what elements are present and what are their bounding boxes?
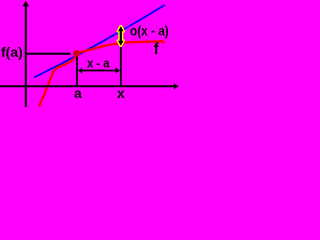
black vertical double arrow o(x-a) <box>118 26 124 46</box>
x-a right arrowhead <box>116 68 120 74</box>
point (a, f(a)) <box>73 50 80 57</box>
x-axis arrowhead <box>174 83 179 89</box>
yellow halo of vertical arrow <box>118 26 124 46</box>
y-axis <box>25 4 27 107</box>
vertical line at a <box>76 57 78 86</box>
red curve f <box>39 41 164 107</box>
svg-text:f: f <box>154 41 160 58</box>
x-a double arrow shaft <box>81 70 118 72</box>
blue tangent line <box>34 5 165 78</box>
svg-text:f(a): f(a) <box>1 44 23 60</box>
f(a) level line <box>25 53 71 55</box>
svg-text:o(x - a): o(x - a) <box>130 23 169 39</box>
y-axis arrowhead <box>23 1 30 6</box>
x-axis <box>0 85 175 87</box>
svg-text:a: a <box>74 85 82 101</box>
svg-text:x - a: x - a <box>87 56 110 71</box>
vertical line at x <box>120 45 122 86</box>
svg-text:x: x <box>117 85 125 101</box>
x-a left arrowhead <box>78 68 82 74</box>
